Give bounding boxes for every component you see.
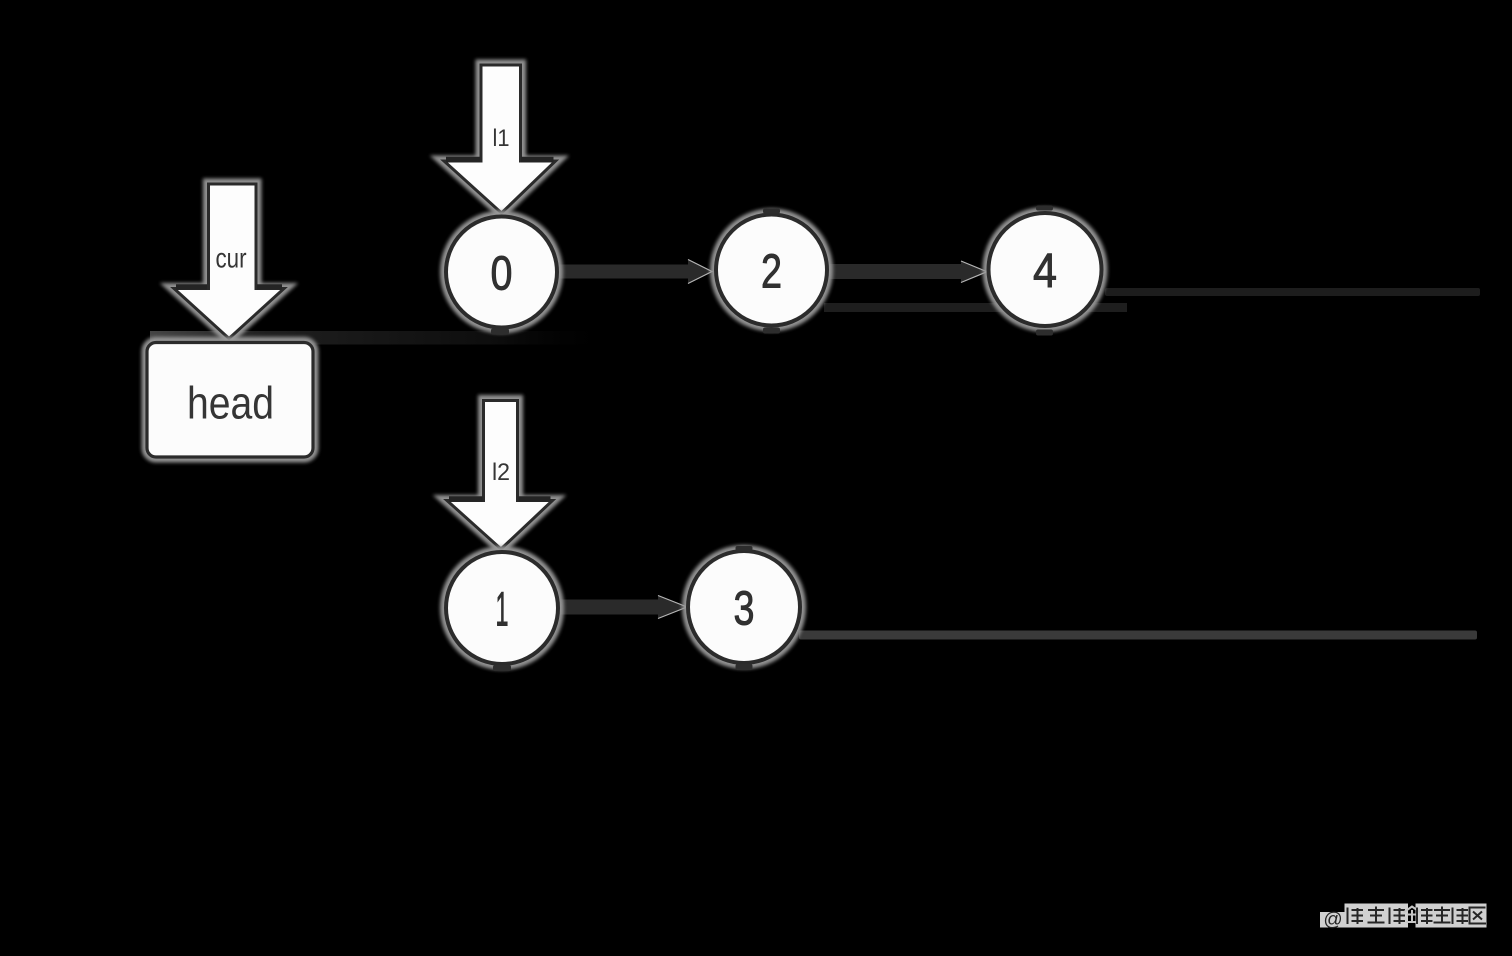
- node 4: [989, 206, 1102, 336]
- arrow l2: [447, 401, 553, 550]
- wire right of node 4: [1105, 288, 1480, 296]
- svg-text:0: 0: [491, 248, 513, 301]
- wire 1-3: [559, 596, 687, 619]
- node 3: [688, 546, 800, 670]
- svg-text:l1: l1: [493, 125, 510, 152]
- svg-text:@: @: [1323, 910, 1342, 931]
- node 1: [446, 552, 558, 671]
- svg-text:cur: cur: [216, 243, 247, 274]
- arrow cur: [174, 184, 284, 339]
- wire smear under 2-4 link: [824, 303, 1127, 312]
- watermark glyph strokes: [1348, 907, 1487, 925]
- svg-text:2: 2: [761, 246, 782, 299]
- wire 2-4: [829, 261, 987, 283]
- arrow l1: [444, 65, 556, 213]
- watermark badge: [1320, 904, 1487, 931]
- svg-text:1: 1: [496, 584, 509, 637]
- node 0: [446, 217, 557, 335]
- wire right of node 3: [799, 631, 1477, 640]
- head box: [147, 343, 313, 458]
- svg-text:4: 4: [1033, 245, 1057, 298]
- node 2: [716, 209, 827, 334]
- svg-text:head: head: [187, 378, 274, 429]
- svg-text:3: 3: [734, 583, 755, 636]
- svg-text:l2: l2: [492, 459, 510, 486]
- wire smear above head box: [150, 331, 612, 345]
- wire 0-2: [556, 260, 712, 284]
